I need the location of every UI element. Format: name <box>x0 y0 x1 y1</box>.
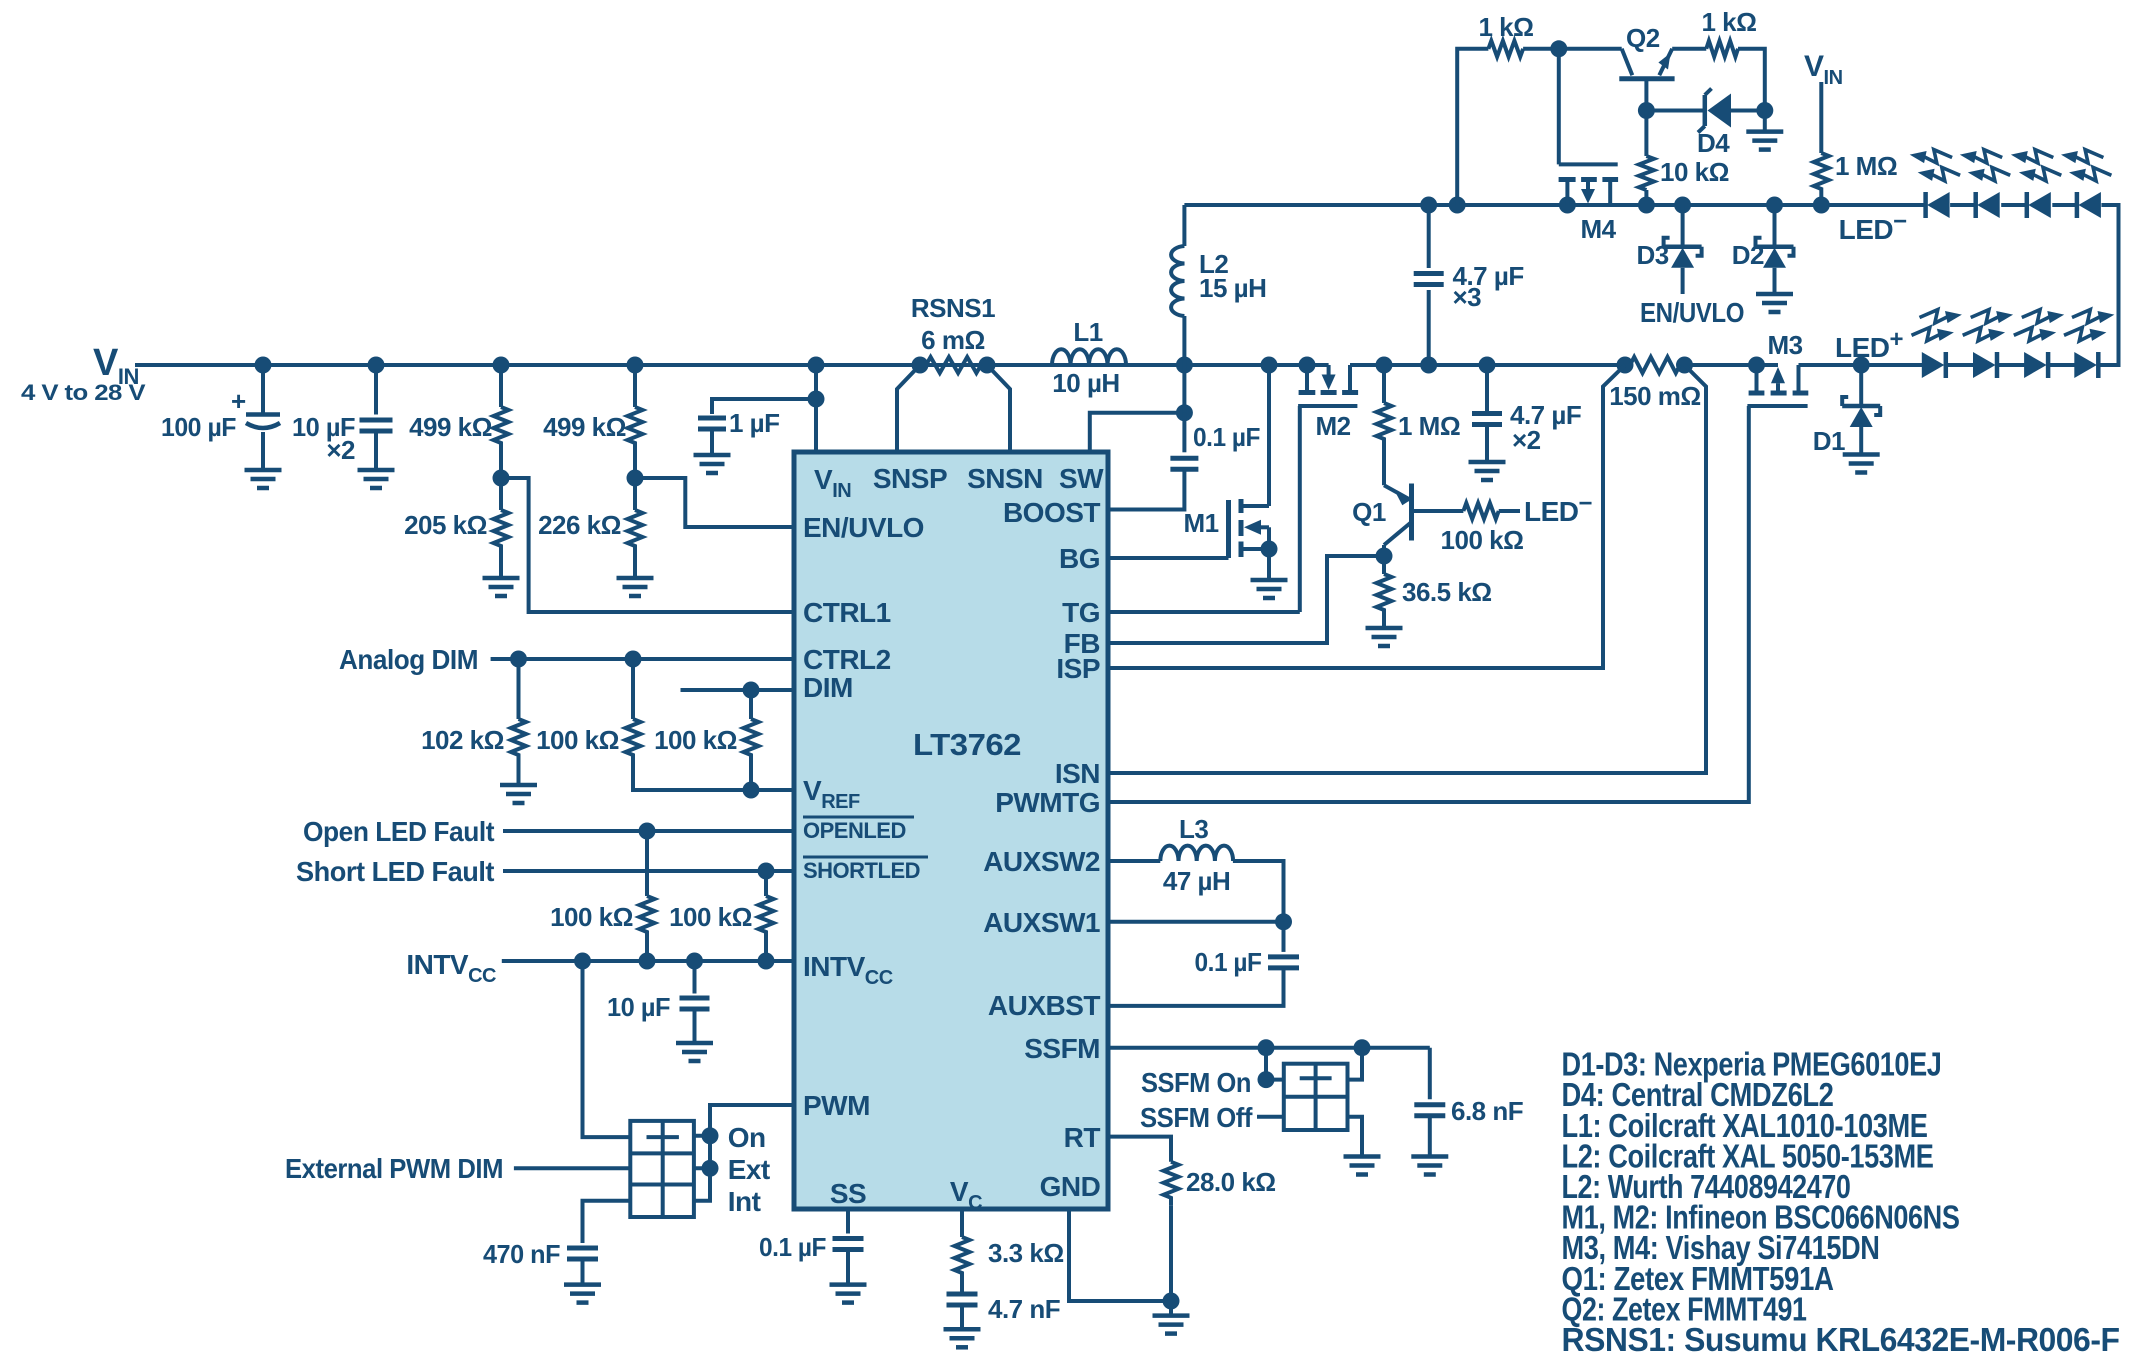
wire 100k CTRL2 bottom to VREF <box>633 761 794 790</box>
ground M1 source <box>1251 580 1288 598</box>
wire 102k bottom stub <box>517 761 521 785</box>
resistor 226k <box>628 510 643 554</box>
LED string bottom #2 <box>1963 310 2013 378</box>
LED string top #3 <box>2011 150 2061 218</box>
pin label DIM <box>803 672 853 703</box>
pin label PWMTG <box>995 787 1100 818</box>
wire main rail 150mOhm-to-M3 section <box>1685 363 1763 367</box>
wire 1k#1 riser <box>1457 49 1488 205</box>
wire RSNS1 right kelvin to SNSN <box>987 365 1010 452</box>
wire 10uF bottom <box>374 431 378 470</box>
wire LED- string segment 3 <box>2052 203 2077 207</box>
label + polarity 100uF <box>231 386 246 416</box>
resistor 150mOhm <box>1630 357 1680 373</box>
pin label GND <box>1040 1171 1101 1202</box>
svg-text:1 kΩ: 1 kΩ <box>1702 7 1757 37</box>
junction GND RT node <box>1163 1293 1180 1310</box>
wire tap to CTRL1 pin <box>501 478 794 612</box>
label Int <box>728 1186 761 1217</box>
label L1 <box>1073 317 1102 347</box>
wire 205k bottom stub <box>499 554 503 578</box>
wire D2 anode to ground <box>1773 268 1777 294</box>
wire AUXSW1 to 0.1uF <box>1282 922 1286 952</box>
svg-text:SSFM: SSFM <box>1024 1033 1100 1064</box>
capacitor 4.7uF x2 <box>1472 414 1502 425</box>
label 28.0k <box>1186 1167 1276 1197</box>
inductor L1 10uH <box>1052 349 1126 365</box>
wire 10uF INTVCC bottom <box>693 1009 697 1043</box>
label RSNS1 <box>911 293 995 323</box>
label SSFM On <box>1141 1067 1251 1098</box>
svg-text:BOOST: BOOST <box>1003 497 1100 528</box>
wire D1 top stub <box>1859 365 1863 406</box>
label 1MOhm Q1 <box>1398 411 1460 441</box>
label x2 cap <box>1512 425 1541 455</box>
wire 36.5k bottom stub <box>1382 618 1386 628</box>
pin label CTRL1 <box>803 597 891 628</box>
svg-text:6.8 nF: 6.8 nF <box>1451 1096 1523 1126</box>
pin label ISN <box>1055 758 1100 789</box>
capacitor 0.1uF aux <box>1268 957 1299 968</box>
label 47uH <box>1163 866 1230 896</box>
capacitor 470nF <box>567 1248 598 1259</box>
transistor M2 MOSFET <box>1298 365 1358 406</box>
wire 10uF top <box>374 365 378 415</box>
svg-text:AUXSW2: AUXSW2 <box>983 846 1100 877</box>
capacitor 10uF x2 <box>360 420 393 431</box>
LED string bottom #4 <box>2064 310 2114 378</box>
resistor 100k OPENLED <box>640 896 655 938</box>
label Open LED Fault <box>303 816 494 847</box>
junction main rail at 10uF <box>368 357 385 374</box>
label Analog DIM <box>339 644 478 675</box>
capacitor 0.1uF SS <box>833 1239 864 1250</box>
wire 0.1uF top stub <box>1182 413 1186 453</box>
wire tap to EN/UVLO pin <box>635 478 794 527</box>
pin label CTRL2 <box>803 644 891 675</box>
junction PWM Ext <box>702 1160 719 1177</box>
op-amp U1 LT3762 IC body <box>794 452 1108 1209</box>
wire L2 bottom stub <box>1182 316 1186 365</box>
label 100k DIM <box>654 725 737 755</box>
junction LED+ at D1 <box>1853 357 1870 374</box>
wire L2 top to LED- rail corner <box>1182 205 1186 246</box>
svg-text:RT: RT <box>1064 1122 1101 1153</box>
junction main rail at 499k #2 <box>627 357 644 374</box>
label 150mOhm <box>1609 381 1701 411</box>
junction PWM On <box>702 1127 719 1144</box>
svg-text:ISP: ISP <box>1056 653 1100 684</box>
svg-text:D2: D2 <box>1732 240 1764 270</box>
capacitor 6.8nF <box>1414 1105 1445 1116</box>
svg-text:Open LED Fault: Open LED Fault <box>303 816 494 847</box>
wire AUXSW2 pin <box>1108 859 1160 863</box>
svg-text:M4: M4 <box>1580 214 1616 244</box>
wire Int to 470nF <box>583 1201 631 1243</box>
wire LED+ string segment 3 <box>2048 363 2078 367</box>
capacitor 10uF INTVCC <box>680 998 710 1009</box>
label 499k #2 <box>543 412 626 442</box>
label M1 <box>1183 508 1218 538</box>
svg-text:D3: D3 <box>1636 240 1668 270</box>
wire 4.7uFx2 bottom <box>1485 425 1489 463</box>
label 100k OPENLED <box>550 902 633 932</box>
wire SW pin riser <box>1090 413 1185 452</box>
wire 4.7uFx3 bottom <box>1427 290 1431 365</box>
wire LED+ string segment 1 <box>1946 363 1976 367</box>
wire main rail M3-to-LED+ section <box>1799 363 1925 367</box>
resistor 100k Q1 base <box>1463 503 1498 519</box>
inductor L3 47uH <box>1160 846 1233 861</box>
svg-text:M2: M2 <box>1315 411 1350 441</box>
pin label PWM <box>803 1090 870 1121</box>
ground SS cap <box>830 1285 867 1303</box>
svg-text:PWMTG: PWMTG <box>995 787 1100 818</box>
junction SSFM On node <box>1258 1071 1275 1088</box>
svg-text:10 µH: 10 µH <box>1052 368 1119 398</box>
resistor 36.5k <box>1377 574 1392 618</box>
label 1k #2 <box>1702 7 1757 37</box>
ground SSFM box <box>1344 1157 1381 1175</box>
label EN/UVLO net <box>1640 297 1744 328</box>
wire Ext stub <box>694 1166 710 1170</box>
label 1MOhm VIN <box>1835 151 1897 181</box>
transistor M3 MOSFET <box>1747 365 1808 406</box>
wire 1M top stub <box>1382 365 1386 403</box>
resistor 1MOhm VIN <box>1814 153 1829 197</box>
label 100k SHORTLED <box>669 902 752 932</box>
svg-text:28.0 kΩ: 28.0 kΩ <box>1186 1167 1276 1197</box>
ground 6.8nF <box>1411 1157 1448 1175</box>
pin label VIN <box>814 464 851 502</box>
wire SSFM box to ground <box>1348 1117 1363 1157</box>
pin label EN/UVLO <box>803 512 924 543</box>
label LED- rail <box>1839 208 1908 245</box>
wire 100k SHORTLED top <box>764 871 768 896</box>
wire 100uF bottom <box>261 432 265 470</box>
wire 1M to LED- rail <box>1819 197 1823 205</box>
svg-text:36.5 kΩ: 36.5 kΩ <box>1402 577 1492 607</box>
wire 3.3k to 4.7nF <box>960 1281 964 1294</box>
wire 1uF bottom <box>710 429 714 455</box>
wire 4.7uFx3 top <box>1427 205 1431 268</box>
pin label BOOST <box>1003 497 1100 528</box>
transistor Q2 NPN <box>1619 49 1674 111</box>
wire 1k#1 to Q2 node <box>1523 47 1559 51</box>
junction 150mOhm left <box>1617 357 1634 374</box>
junction LED- rail 10k <box>1638 197 1655 214</box>
label 10k <box>1660 157 1729 187</box>
svg-text:×3: ×3 <box>1453 282 1482 312</box>
svg-text:SS: SS <box>830 1178 866 1209</box>
svg-text:0.1 µF: 0.1 µF <box>1193 422 1260 452</box>
label 4.7uFx2 <box>1510 400 1581 430</box>
ground 10uF <box>358 470 395 488</box>
svg-text:AUXSW1: AUXSW1 <box>983 907 1100 938</box>
wire ISN kelvin <box>1108 365 1706 773</box>
LED string top #1 <box>1910 150 1960 218</box>
ground 205k <box>483 578 520 596</box>
junction main rail at 100uF <box>255 357 272 374</box>
wire main VIN rail left section <box>135 363 1307 367</box>
junction M1 source node <box>1261 541 1278 558</box>
svg-text:SW: SW <box>1059 463 1104 494</box>
switch PWM select box <box>630 1121 694 1217</box>
label 102k <box>421 725 504 755</box>
resistor 205k <box>494 510 509 554</box>
wire GND node to ground <box>1169 1301 1173 1316</box>
junction Q2 base D4 node <box>1638 102 1655 119</box>
svg-text:Analog DIM: Analog DIM <box>339 644 478 675</box>
ground D4 node <box>1746 132 1783 150</box>
wire 226k bottom stub <box>633 554 637 578</box>
ground 102k <box>500 785 537 803</box>
label Ext <box>728 1154 770 1185</box>
junction OPENLED at 100k <box>639 823 656 840</box>
resistor 1k #2 <box>1706 41 1738 57</box>
junction SHORTLED at 100k <box>758 863 775 880</box>
svg-text:226 kΩ: 226 kΩ <box>538 510 621 540</box>
junction main rail at M3 left leg <box>1748 357 1765 374</box>
resistor 499k #2 <box>628 407 643 451</box>
junction main rail at 1MOhm <box>1376 357 1393 374</box>
wire SS cap bottom <box>846 1250 850 1285</box>
label M3 <box>1767 330 1802 360</box>
label 4.7uFx3 <box>1453 261 1524 291</box>
pin label TG <box>1062 597 1100 628</box>
wire LED- rail <box>1184 203 1925 207</box>
switch SSFM select box <box>1284 1064 1348 1130</box>
svg-text:1 MΩ: 1 MΩ <box>1398 411 1460 441</box>
svg-text:Short LED Fault: Short LED Fault <box>296 856 494 887</box>
svg-text:GND: GND <box>1040 1171 1101 1202</box>
svg-text:On: On <box>728 1122 766 1153</box>
capacitor 0.1uF boost <box>1170 458 1198 469</box>
wire OPENLED <box>503 829 794 833</box>
wire Q2 node to emitter <box>1559 47 1622 51</box>
wire VC pin stub <box>960 1209 964 1237</box>
junction AUXSW1 node <box>1275 913 1292 930</box>
junction SSFM left riser <box>1258 1039 1275 1056</box>
wire SSFM Off stub <box>1257 1115 1284 1119</box>
svg-text:10 kΩ: 10 kΩ <box>1660 157 1729 187</box>
label 1k #1 <box>1479 12 1534 42</box>
svg-text:0.1 µF: 0.1 µF <box>1195 947 1262 977</box>
label M4 <box>1580 214 1616 244</box>
svg-text:External PWM DIM: External PWM DIM <box>285 1153 503 1184</box>
pin label FB <box>1064 628 1100 659</box>
pin label ISP <box>1056 653 1100 684</box>
wire 100k CTRL2 top stub <box>631 659 635 719</box>
label M2 <box>1315 411 1350 441</box>
junction SW node on rail <box>1176 357 1193 374</box>
svg-text:150 mΩ: 150 mΩ <box>1609 381 1701 411</box>
svg-text:SSFM On: SSFM On <box>1141 1067 1251 1098</box>
junction LED- rail D3 <box>1674 197 1691 214</box>
label 1uF <box>729 408 780 438</box>
label External PWM DIM <box>285 1153 503 1184</box>
resistor 1MOhm Q1 emitter <box>1377 403 1392 447</box>
wire TG pin <box>1108 610 1300 614</box>
wire SSFM to 6.8nF <box>1428 1048 1432 1100</box>
junction main rail at 4.7uFx3 <box>1420 357 1437 374</box>
wire LED- string segment 2 <box>2001 203 2027 207</box>
label 0.1uF aux <box>1195 947 1262 977</box>
diode D3 Schottky <box>1664 238 1702 268</box>
LED string top #2 <box>1960 150 2010 218</box>
diode D4 zener <box>1698 89 1731 133</box>
svg-text:4 V to 28 V: 4 V to 28 V <box>21 380 146 405</box>
wire SW node vertical <box>1182 365 1186 413</box>
junction SW/0.1uF node <box>1176 404 1193 421</box>
resistor 3.3k <box>955 1237 970 1281</box>
svg-text:TG: TG <box>1062 597 1100 628</box>
label L3 <box>1179 814 1208 844</box>
wire On stub <box>694 1134 710 1138</box>
pin label BG <box>1059 543 1100 574</box>
junction Analog DIM at 100k <box>625 651 642 668</box>
pin label VC <box>950 1176 982 1214</box>
junction VIN pin node 1uF <box>808 391 825 408</box>
wire D3 cathode stub <box>1681 205 1685 247</box>
junction INTVCC riser <box>574 953 591 970</box>
wire AUXSW1 pin <box>1108 920 1284 924</box>
junction LED- rail 1k riser <box>1449 197 1466 214</box>
label 3.3k <box>988 1238 1064 1268</box>
wire 1k#2 to corner <box>1738 49 1765 111</box>
junction divider tap EN/UVLO <box>627 470 644 487</box>
wire 102k top stub <box>517 659 521 719</box>
wire SSFM pin <box>1108 1046 1430 1050</box>
svg-text:SNSP: SNSP <box>873 463 947 494</box>
label 0.1uF SS <box>759 1232 826 1262</box>
label 226k <box>538 510 621 540</box>
junction INTVCC 100k SHORTLED <box>758 953 775 970</box>
ground D1 <box>1843 455 1880 473</box>
svg-text:100 kΩ: 100 kΩ <box>550 902 633 932</box>
svg-text:100 kΩ: 100 kΩ <box>1441 525 1524 555</box>
wire 36.5k top stub <box>1382 556 1386 574</box>
pin label AUXSW1 <box>983 907 1100 938</box>
resistor 102k <box>511 719 526 761</box>
LED string top #4 <box>2061 150 2111 218</box>
transistor M1 MOSFET <box>1229 365 1270 558</box>
wire ISP kelvin <box>1108 365 1625 668</box>
wire 100k OPENLED top <box>645 831 649 896</box>
svg-text:1 µF: 1 µF <box>729 408 780 438</box>
ground 4.7uFx2 <box>1469 462 1506 480</box>
svg-text:3.3 kΩ: 3.3 kΩ <box>988 1238 1064 1268</box>
svg-text:Q2: Q2 <box>1626 23 1660 53</box>
label 499k #1 <box>409 412 492 442</box>
svg-text:BG: BG <box>1059 543 1100 574</box>
wire VIN pin riser <box>814 365 818 452</box>
wire Q2 collector to 1k#2 <box>1672 47 1706 51</box>
wire 499k#2 top stub <box>633 365 637 407</box>
label x2 10uF <box>326 435 355 465</box>
svg-text:47 µH: 47 µH <box>1163 866 1230 896</box>
wire 6.8nF bottom <box>1428 1116 1432 1157</box>
svg-text:×2: ×2 <box>326 435 355 465</box>
pin label AUXSW2 <box>983 846 1100 877</box>
wire PWM pin <box>694 1105 794 1201</box>
label LT3762 <box>913 727 1021 762</box>
LED string bottom #1 <box>1912 310 1962 378</box>
transistor Q1 PNP <box>1384 484 1463 557</box>
wire 28k bottom <box>1169 1206 1173 1301</box>
wire SSFM right riser <box>1348 1048 1363 1080</box>
label 4V to 28V <box>21 380 146 405</box>
svg-text:OPENLED: OPENLED <box>803 818 906 843</box>
junction VREF at 100k <box>743 782 760 799</box>
svg-text:100 µF: 100 µF <box>161 412 236 442</box>
ground D2 <box>1756 294 1793 312</box>
pin label VREF <box>803 775 860 813</box>
capacitor 4.7nF <box>947 1294 978 1305</box>
wire SHORTLED <box>503 869 794 873</box>
svg-text:D1: D1 <box>1813 426 1845 456</box>
wire 100uF top <box>261 365 265 415</box>
wire SSFM On stub <box>1266 1078 1284 1082</box>
wire 499k#1 top stub <box>499 365 503 407</box>
svg-text:PWM: PWM <box>803 1090 870 1121</box>
svg-text:470 nF: 470 nF <box>483 1239 560 1269</box>
resistor 100k CTRL2 <box>626 719 641 761</box>
svg-text:ISN: ISN <box>1055 758 1100 789</box>
label 470nF <box>483 1239 560 1269</box>
wire 100k OPENLED bottom <box>645 938 649 961</box>
wire L3 to riser <box>1233 861 1284 922</box>
junction LED- rail M4 left leg <box>1559 197 1576 214</box>
wire 4.7uFx2 top <box>1485 365 1489 414</box>
svg-text:Int: Int <box>728 1186 761 1217</box>
wire 226k top stub <box>633 478 637 510</box>
wire SSFM left riser <box>1264 1048 1268 1080</box>
wire 205k top stub <box>499 478 503 510</box>
transistor M4 MOSFET <box>1559 49 1619 205</box>
label LED+ <box>1835 326 1904 363</box>
label x3 <box>1453 282 1482 312</box>
svg-text:SNSN: SNSN <box>967 463 1043 494</box>
ground GND pin <box>1153 1316 1190 1334</box>
wire LED+ string segment 2 <box>1997 363 2027 367</box>
label 36.5k <box>1402 577 1492 607</box>
wire M2 gate to TG <box>1298 406 1302 612</box>
label SSFM Off <box>1140 1102 1253 1133</box>
wire M3 gate to PWMTG <box>1108 406 1749 802</box>
wire main rail M2-to-150mOhm section <box>1350 363 1625 367</box>
junction main rail at 499k #1 <box>493 357 510 374</box>
wire LED+ string segment 4 and right edge riser <box>2098 205 2118 365</box>
resistor 100k SHORTLED <box>759 896 774 938</box>
wire 0.1uF aux to AUXBST <box>1108 968 1284 1006</box>
svg-text:SSFM Off: SSFM Off <box>1140 1102 1253 1133</box>
pin label SNSN <box>967 463 1043 494</box>
diode D2 Schottky <box>1756 238 1794 268</box>
svg-text:EN/UVLO: EN/UVLO <box>1640 297 1744 328</box>
label 10uH <box>1052 368 1119 398</box>
svg-text:LT3762: LT3762 <box>913 727 1021 762</box>
junction D4 anode node <box>1756 102 1773 119</box>
resistor RSNS1 6mOhm <box>926 357 981 373</box>
junction RSNS1 right <box>979 357 996 374</box>
label 15uH <box>1199 273 1266 303</box>
wire D2 cathode stub <box>1773 205 1777 247</box>
resistor 499k #1 <box>494 407 509 451</box>
svg-text:100 kΩ: 100 kΩ <box>654 725 737 755</box>
junction Q2 emitter node <box>1550 40 1567 57</box>
svg-text:RSNS1: Susumu KRL6432E-M-R006-: RSNS1: Susumu KRL6432E-M-R006-F <box>1562 1321 2120 1358</box>
